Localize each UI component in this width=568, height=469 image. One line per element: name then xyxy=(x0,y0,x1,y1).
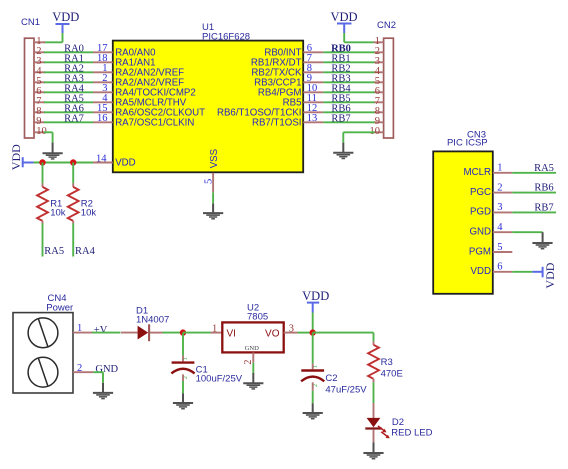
wire VDD to CN2 pin 1 xyxy=(344,33,373,42)
wire RB4 xyxy=(323,91,374,93)
CN2 pin 8 stub xyxy=(374,111,384,113)
LED D2 RED LED xyxy=(365,418,390,438)
wire R1 to RA5 xyxy=(42,221,44,257)
label R2 10k xyxy=(81,199,97,219)
wire node VIN to C1 xyxy=(182,333,184,362)
U1 left pin 3 (RA4/TOCKI/CMP2) xyxy=(93,83,196,98)
resistor R1 10k xyxy=(37,187,48,221)
U1 pin 14 VDD xyxy=(93,153,136,168)
wire to R3 xyxy=(373,341,375,345)
svg-text:16: 16 xyxy=(97,113,108,124)
wire VDD to CN1 pin 1 xyxy=(44,33,63,42)
svg-text:D2: D2 xyxy=(392,417,404,428)
wire RA6 xyxy=(44,111,93,113)
svg-text:CN1: CN1 xyxy=(21,17,40,28)
svg-text:RA4: RA4 xyxy=(75,246,96,257)
svg-text:VDD: VDD xyxy=(543,262,557,288)
U1 pin 5 VSS xyxy=(204,148,221,192)
wire R3 to D2 xyxy=(373,379,375,418)
svg-text:CN2: CN2 xyxy=(377,20,396,31)
CN2 pin 6 stub xyxy=(374,91,384,93)
U1 left pin 15 (RA6/OSC2/CLKOUT) xyxy=(93,103,205,118)
U2 pin 2 to ground xyxy=(243,353,254,383)
capacitor C2 47uF/25V xyxy=(301,365,324,387)
wire RA4 xyxy=(44,91,93,93)
CN3 pin 1 (MCLR) xyxy=(464,163,513,179)
CN3 pin 3 (PGD) xyxy=(470,202,512,218)
CN1 pin 5 stub xyxy=(34,81,45,83)
CN1 pin 8 stub xyxy=(34,111,45,113)
ground (CN3 GND) xyxy=(532,243,552,249)
svg-text:RB7/T1OSI: RB7/T1OSI xyxy=(252,117,302,128)
wire VSS to ground xyxy=(212,192,214,203)
CN4 pin 1 xyxy=(73,323,93,334)
CN1 pin 4 stub xyxy=(34,71,45,73)
svg-text:1: 1 xyxy=(212,323,217,334)
U1 left pin 18 (RA1/AN1) xyxy=(93,53,156,68)
label R3 470E xyxy=(381,357,403,379)
svg-text:VDD: VDD xyxy=(52,10,79,24)
power symbol VDD (above CN2) xyxy=(330,10,357,33)
wire RB3 xyxy=(323,81,374,83)
wire C1 to ground xyxy=(182,374,184,402)
connector CN4 Power (screw terminal) xyxy=(13,293,73,393)
svg-text:RA5: RA5 xyxy=(534,163,554,174)
svg-text:5: 5 xyxy=(204,179,215,184)
wire R2 to RA4 xyxy=(72,221,74,257)
wire RA0 xyxy=(44,51,93,53)
svg-text:1: 1 xyxy=(313,365,319,368)
junction node VIN xyxy=(180,329,186,335)
CN2 pin 9 stub xyxy=(374,121,384,123)
wire CN2 pin 10 to ground xyxy=(343,132,374,152)
wire D2 to ground xyxy=(373,430,375,453)
wire CN4 pin 1 to D1 xyxy=(92,332,121,334)
U1 right pin 9 (RB3/CCP1) xyxy=(254,73,323,88)
CN3 pin 2 (PGC) xyxy=(470,182,512,198)
U1 left pin 4 (RA5/MCLR/THV) xyxy=(93,93,187,108)
junction node VDD xyxy=(310,329,316,335)
wire VDD to node xyxy=(312,313,314,333)
U1 left pin 1 (RA2/AN2/VREF) xyxy=(93,63,184,78)
wire RA2 xyxy=(44,71,93,73)
label D2 RED LED xyxy=(391,417,432,439)
svg-text:4: 4 xyxy=(497,222,503,233)
junction node R1/VDD xyxy=(39,159,45,165)
wire CN3 RA5 xyxy=(512,172,556,174)
CN1 pin 6 stub xyxy=(34,91,45,93)
wire RB7 xyxy=(323,121,374,123)
svg-text:RA7: RA7 xyxy=(64,113,84,124)
wire CN3 RB6 xyxy=(512,192,556,194)
CN1 pin 2 stub xyxy=(34,51,45,53)
svg-text:VSS: VSS xyxy=(209,148,220,168)
CN3 pin 4 (GND) xyxy=(469,222,512,238)
power symbol VDD (top-left) xyxy=(52,10,79,33)
CN2 pin 4 stub xyxy=(374,71,384,73)
svg-text:2: 2 xyxy=(497,182,502,193)
wire RA7 xyxy=(44,121,93,123)
regulator U2 7805 xyxy=(211,303,298,353)
wire VDD to R1 xyxy=(42,163,44,184)
svg-text:RB7: RB7 xyxy=(534,202,553,213)
wire D1 to node VIN xyxy=(163,332,185,334)
CN1 pin 7 stub xyxy=(34,101,45,103)
U1 right pin 11 (RB5) xyxy=(283,93,324,108)
svg-text:RA7/OSC1/CLKIN: RA7/OSC1/CLKIN xyxy=(115,117,194,128)
U1 right pin 10 (RB4/PGM) xyxy=(258,83,323,98)
svg-text:13: 13 xyxy=(307,113,318,124)
wire node VDD to C2 xyxy=(312,333,314,370)
svg-text:PIC ICSP: PIC ICSP xyxy=(447,137,488,148)
svg-text:6: 6 xyxy=(497,262,502,273)
CN2 pin 3 stub xyxy=(374,61,384,63)
label R1 10k xyxy=(50,199,66,219)
svg-text:Power: Power xyxy=(46,302,73,313)
label C1 100uF/25V xyxy=(196,365,243,385)
svg-text:PGC: PGC xyxy=(470,187,491,198)
U1 left pin 2 (RA2/AN2/VREF) xyxy=(93,73,184,88)
wire RB5 xyxy=(323,101,374,103)
wire C2 to ground xyxy=(312,382,314,412)
wire CN3 GND to ground xyxy=(512,232,542,242)
ground (below CN2) xyxy=(333,153,353,159)
svg-text:VI: VI xyxy=(227,328,236,339)
wire CN4 pin 2 to ground xyxy=(93,372,103,392)
svg-text:GND: GND xyxy=(245,345,260,352)
svg-text:RB7: RB7 xyxy=(331,113,350,124)
svg-text:VO: VO xyxy=(265,328,280,339)
CN2 pin 1 stub xyxy=(374,41,384,43)
U1 right pin 13 (RB7/T1OSI) xyxy=(252,113,323,128)
CN4 pin 2 xyxy=(73,363,93,374)
svg-text:PGM: PGM xyxy=(469,246,491,257)
U1 right pin 12 (RB6/T1OSO/T1CKI) xyxy=(217,103,323,118)
svg-text:C2: C2 xyxy=(325,373,337,384)
CN2 pin 10 stub xyxy=(374,131,384,133)
wire RB6 xyxy=(323,111,374,113)
CN2 pin 5 stub xyxy=(374,81,384,83)
CN2 pin 7 stub xyxy=(374,101,384,103)
ground (below U1 VSS) xyxy=(203,213,223,219)
svg-text:RED LED: RED LED xyxy=(391,428,432,439)
svg-text:VDD: VDD xyxy=(302,289,329,303)
CN1 pin 10 stub xyxy=(34,131,45,133)
svg-text:RB6: RB6 xyxy=(534,183,553,194)
wire RA5 xyxy=(44,101,93,103)
svg-text:R3: R3 xyxy=(381,357,393,368)
U1 left pin 17 (RA0/AN0) xyxy=(93,43,156,58)
svg-text:14: 14 xyxy=(96,153,107,164)
U1 right pin 7 (RB1/RX/DT) xyxy=(251,53,323,68)
svg-text:2: 2 xyxy=(313,384,319,387)
power symbol VDD (bottom) xyxy=(302,289,329,313)
wire RA1 xyxy=(44,61,93,63)
svg-text:10k: 10k xyxy=(81,208,97,219)
wire node VIN to U2 pin 1 xyxy=(183,332,211,334)
ground (CN4 GND) xyxy=(93,393,113,399)
ground (below D2) xyxy=(363,453,383,459)
svg-text:1: 1 xyxy=(497,163,502,174)
CN1 pin 3 stub xyxy=(34,61,45,63)
svg-text:VDD: VDD xyxy=(9,144,23,170)
wire CN1 pin 10 to ground xyxy=(44,132,53,152)
diode D1 1N4007 xyxy=(121,306,169,342)
ground (below U2) xyxy=(243,383,263,389)
resistor R3 470E xyxy=(368,345,379,379)
wire VDD rail to U1 pin 14 xyxy=(34,162,94,164)
connector CN1 xyxy=(21,17,40,138)
U1 right pin 6 (RB0/INT) xyxy=(264,43,323,58)
svg-text:2: 2 xyxy=(77,363,82,374)
ground (below C2) xyxy=(303,413,323,419)
svg-text:RA5: RA5 xyxy=(44,246,64,257)
ground (below CN1) xyxy=(43,153,63,159)
junction node R2/VDD xyxy=(70,159,76,165)
svg-text:+V: +V xyxy=(94,325,108,336)
svg-text:VDD: VDD xyxy=(330,10,357,24)
connector CN3 PIC ICSP body xyxy=(433,130,493,294)
CN2 pin 2 stub xyxy=(374,51,384,53)
svg-text:10k: 10k xyxy=(50,208,66,219)
svg-text:47uF/25V: 47uF/25V xyxy=(325,384,367,395)
svg-text:VDD: VDD xyxy=(471,266,491,277)
svg-text:7805: 7805 xyxy=(247,311,268,322)
capacitor C1 100uF/25V xyxy=(171,357,194,379)
CN1 pin 9 stub xyxy=(34,121,45,123)
wire node VDD to R3 branch xyxy=(313,333,374,342)
wire RB1 xyxy=(323,61,374,63)
svg-text:VDD: VDD xyxy=(115,158,135,169)
connector CN2 xyxy=(377,20,396,138)
svg-text:GND: GND xyxy=(469,227,491,238)
svg-text:3: 3 xyxy=(289,323,294,334)
IC U1 PIC16F628 body xyxy=(113,22,303,172)
svg-text:1: 1 xyxy=(183,357,189,360)
svg-text:3: 3 xyxy=(497,202,502,213)
ground (below C1) xyxy=(173,403,193,409)
power symbol VDD (right of CN3, rotated) xyxy=(512,262,557,288)
resistor R2 10k xyxy=(68,187,79,221)
CN1 pin 1 stub xyxy=(34,41,45,43)
wire RA3 xyxy=(44,81,93,83)
svg-text:1N4007: 1N4007 xyxy=(136,314,169,325)
U1 left pin 16 (RA7/OSC1/CLKIN) xyxy=(93,113,194,128)
svg-text:470E: 470E xyxy=(381,368,403,379)
CN3 pin 5 (PGM) xyxy=(469,242,512,257)
wire VDD to R2 xyxy=(72,163,74,184)
svg-text:100uF/25V: 100uF/25V xyxy=(196,374,243,385)
wire RB0 xyxy=(323,51,374,53)
wire RB2 xyxy=(323,71,374,73)
svg-text:MCLR: MCLR xyxy=(464,167,491,178)
U1 right pin 8 (RB2/TX/CK) xyxy=(251,63,323,78)
svg-text:PGD: PGD xyxy=(470,207,491,218)
svg-text:GND: GND xyxy=(95,364,118,375)
CN3 pin 6 (VDD) xyxy=(471,262,513,278)
svg-text:1: 1 xyxy=(77,323,82,334)
svg-text:2: 2 xyxy=(183,376,189,379)
wire U2 pin 3 to node VDD xyxy=(298,332,314,334)
wire CN3 RB7 xyxy=(512,211,556,213)
label C2 47uF/25V xyxy=(325,373,367,395)
svg-text:5: 5 xyxy=(497,242,502,253)
power symbol VDD (left, rotated) xyxy=(9,144,33,170)
